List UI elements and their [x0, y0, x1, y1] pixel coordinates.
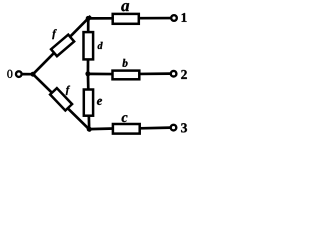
resistor e: [84, 90, 93, 116]
label 0: [7, 70, 12, 78]
wire terminal 0 to split node: [22, 73, 35, 76]
junction node top: [86, 16, 91, 21]
wire vertical top node to mid node: [87, 18, 90, 73]
resistor a: [113, 14, 139, 24]
resistor f upper diagonal: [51, 35, 74, 57]
resistor c: [113, 124, 140, 134]
label 1: [182, 13, 187, 22]
resistor b: [113, 71, 140, 80]
terminal 3 circle: [171, 125, 177, 131]
label f lower: [66, 86, 70, 95]
label a: [121, 3, 129, 11]
junction node middle: [85, 71, 90, 76]
wire vertical mid node to bottom node: [88, 74, 89, 129]
wire diagonal split to bottom node (with overshoot): [33, 74, 91, 131]
terminal 1 circle: [171, 15, 177, 21]
wire mid node to resistor b: [88, 72, 113, 75]
resistor f lower diagonal: [50, 88, 72, 110]
label e: [97, 99, 102, 105]
wire bottom node to resistor c: [89, 127, 114, 130]
label 2: [181, 70, 187, 79]
label b: [122, 59, 127, 67]
junction node at split near terminal 0: [31, 72, 36, 77]
wire resistor c to terminal 3: [140, 126, 171, 129]
terminal 2 circle: [171, 71, 177, 77]
label c: [122, 115, 128, 122]
wire diagonal split to top node (with overshoot): [33, 16, 91, 74]
label 3: [181, 123, 187, 132]
wire top node to resistor a: [88, 17, 113, 20]
terminal 0 circle: [16, 71, 22, 77]
resistor d: [84, 32, 94, 59]
label f upper: [52, 29, 57, 39]
wire resistor a to terminal 1: [139, 17, 171, 20]
label d: [98, 42, 103, 49]
junction node bottom: [87, 127, 92, 132]
wire resistor b to terminal 2: [140, 72, 171, 75]
